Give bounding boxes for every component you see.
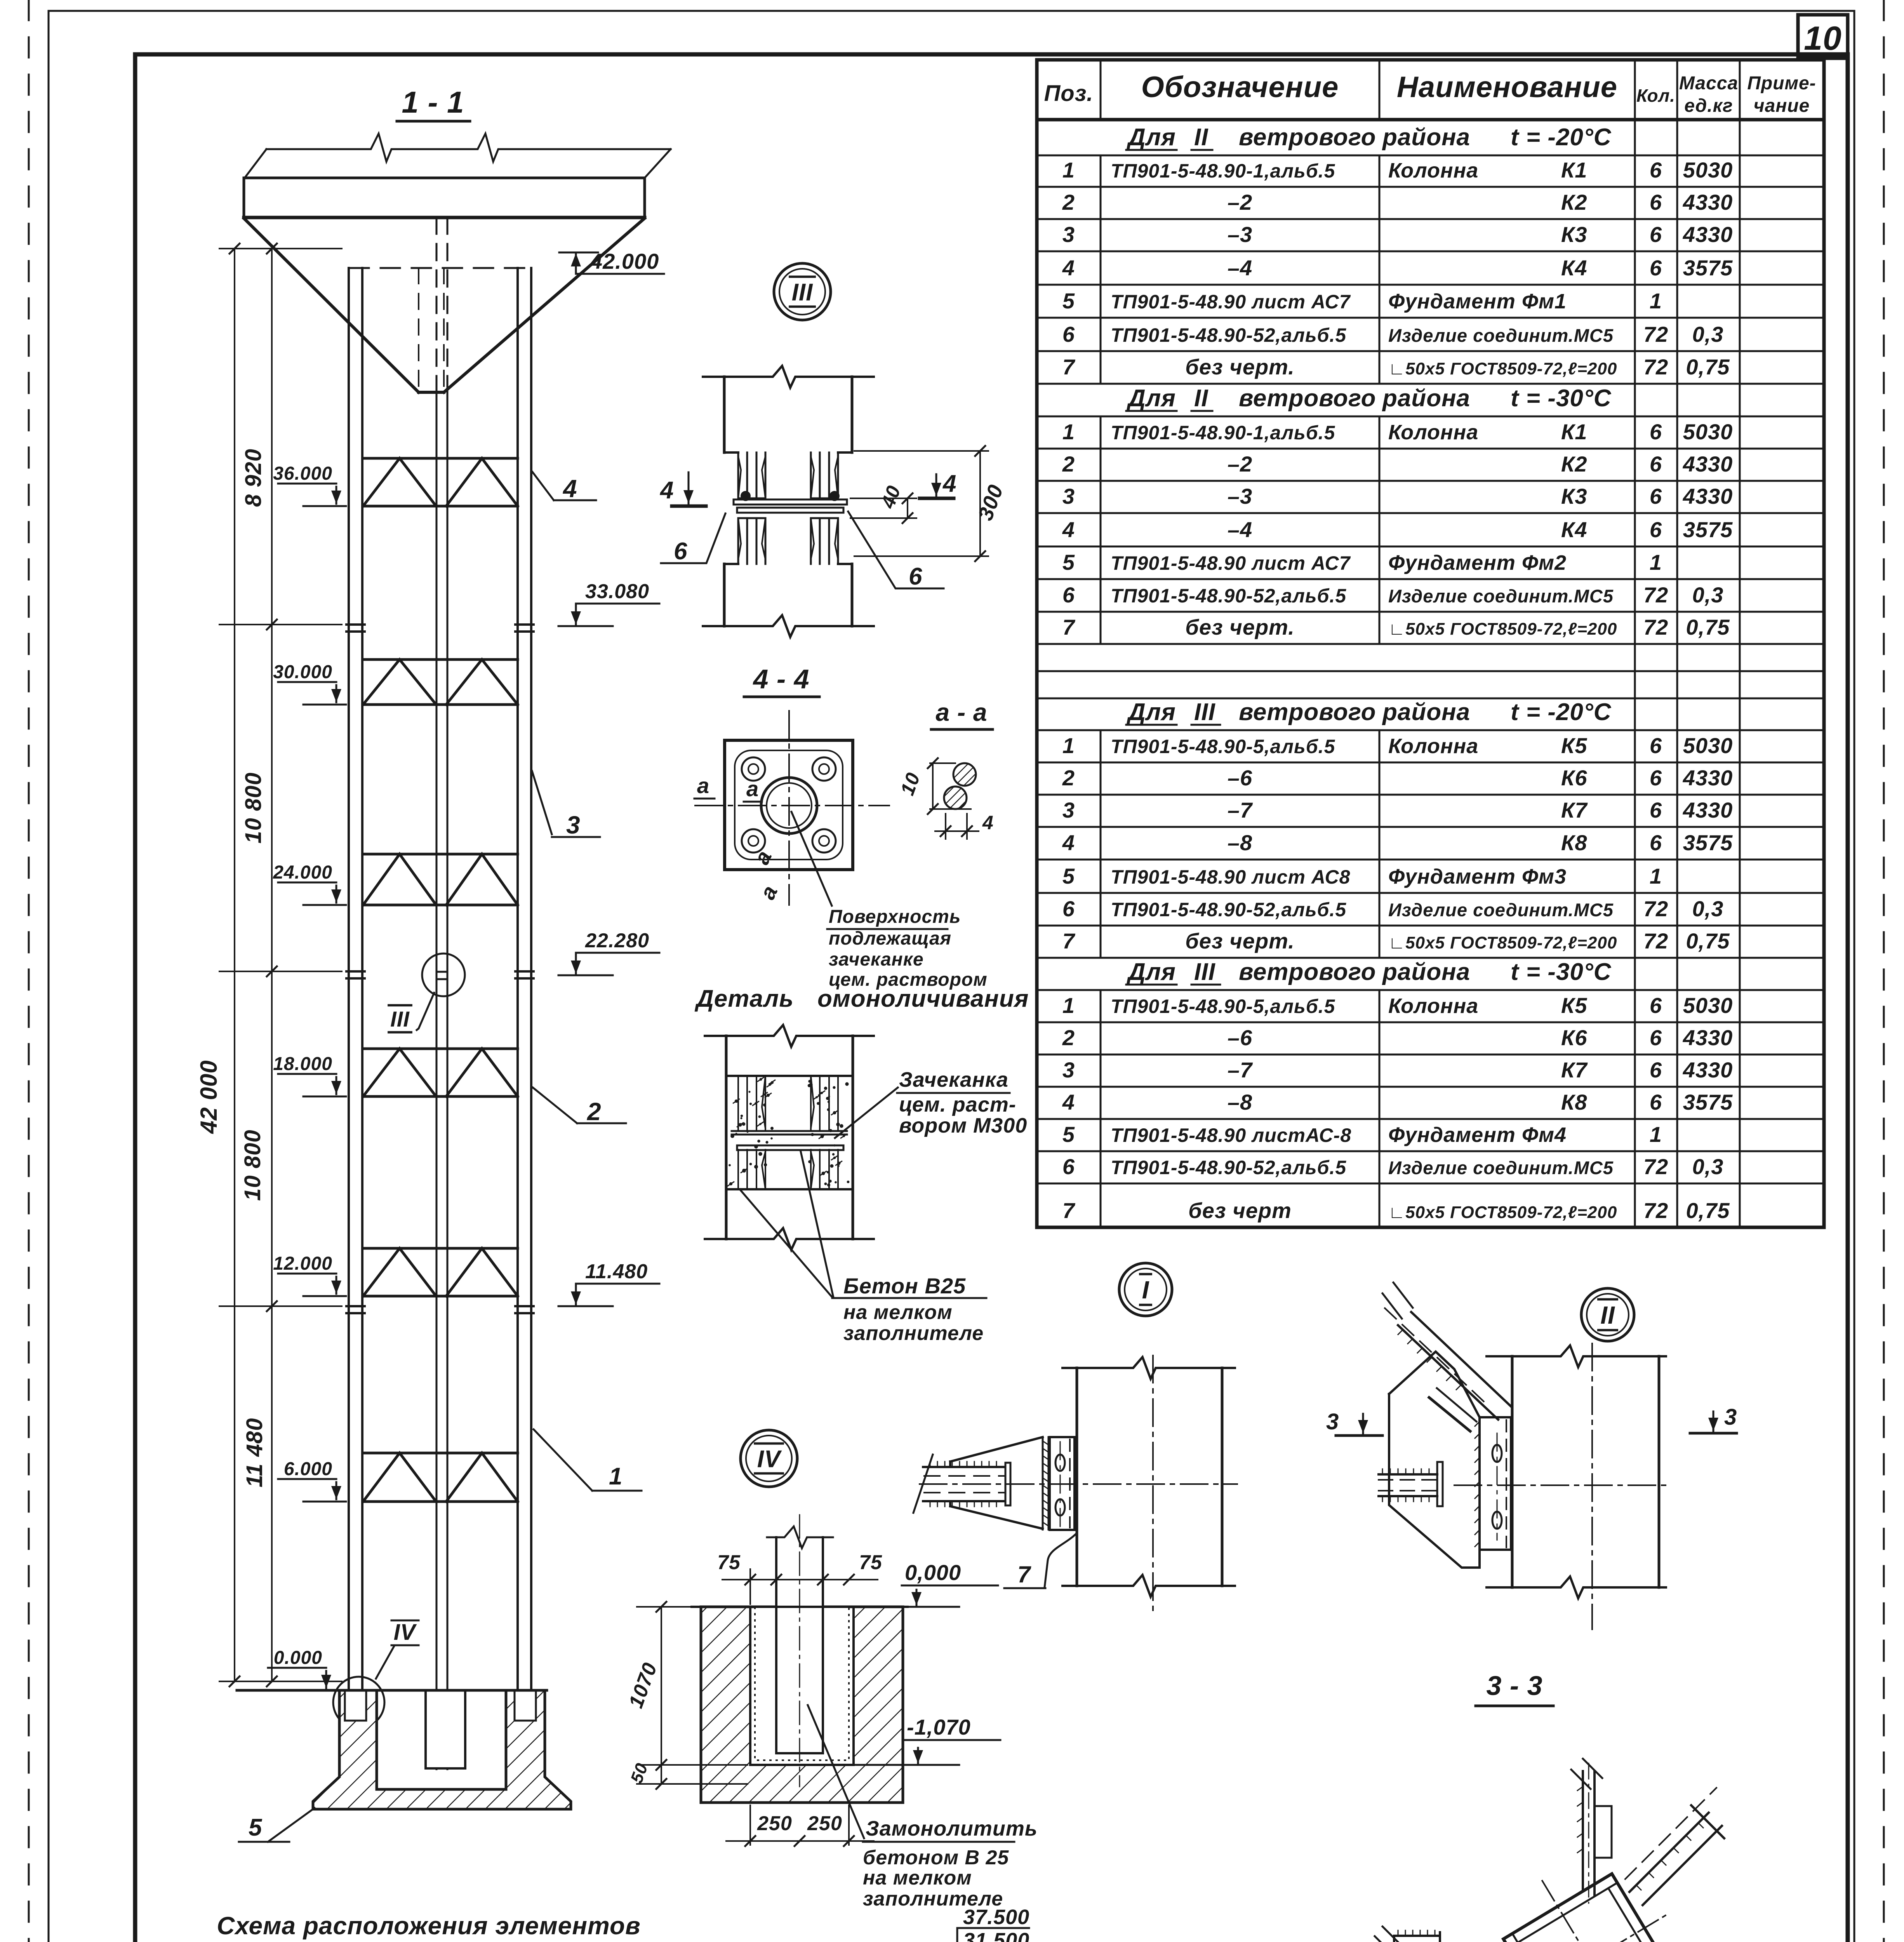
svg-text:1: 1 [609, 1463, 622, 1490]
svg-text:подлежащая: подлежащая [829, 928, 951, 949]
svg-text:района: района [1382, 959, 1470, 985]
svg-text:4: 4 [562, 475, 577, 503]
svg-text:без черт: без черт [1188, 1198, 1292, 1223]
svg-text:1: 1 [1062, 419, 1075, 444]
upper elevation list [956, 1928, 958, 1942]
detail I column [1062, 1357, 1235, 1379]
svg-text:–8: –8 [1228, 1090, 1252, 1114]
hidden line tank bottom 42.000 [350, 267, 531, 269]
svg-text:0,3: 0,3 [1692, 1154, 1724, 1179]
svg-text:К2: К2 [1561, 190, 1588, 214]
svg-text:6: 6 [1062, 896, 1075, 921]
svg-text:0,3: 0,3 [1692, 583, 1724, 607]
leader замонолитить [808, 1705, 864, 1838]
svg-text:Колонна: Колонна [1388, 734, 1478, 758]
detail mark III on shaft [422, 954, 465, 996]
svg-text:Поверхность: Поверхность [829, 907, 961, 927]
specification table [1037, 58, 1824, 62]
svg-text:6: 6 [1650, 419, 1662, 444]
svg-text:ветрового: ветрового [1239, 124, 1376, 151]
svg-text:6: 6 [1062, 322, 1075, 346]
svg-text:75: 75 [717, 1551, 741, 1574]
svg-text:24.000: 24.000 [273, 862, 332, 883]
svg-text:без черт.: без черт. [1185, 355, 1295, 379]
foundation of tower [313, 1690, 571, 1809]
svg-text:Для: Для [1126, 385, 1176, 412]
svg-text:3575: 3575 [1683, 517, 1733, 542]
svg-text:ветрового: ветрового [1239, 385, 1376, 412]
svg-text:7: 7 [1062, 355, 1076, 379]
svg-text:на мелком: на мелком [863, 1867, 972, 1889]
svg-text:4330: 4330 [1683, 452, 1733, 476]
svg-text:t = -20°C: t = -20°C [1511, 124, 1612, 151]
svg-text:4330: 4330 [1683, 1058, 1733, 1082]
svg-text:Поз.: Поз. [1044, 81, 1094, 106]
detail II column [1487, 1345, 1666, 1367]
detail III lower neck flanges [738, 517, 765, 519]
svg-text:чание: чание [1754, 96, 1810, 116]
detail I strut [923, 1466, 1004, 1468]
svg-text:-1,070: -1,070 [907, 1715, 971, 1739]
svg-text:75: 75 [859, 1551, 882, 1574]
svg-text:0,75: 0,75 [1686, 929, 1730, 953]
svg-text:ТП901-5-48.90-52,альб.5: ТП901-5-48.90-52,альб.5 [1111, 899, 1346, 921]
svg-text:Изделие соединит.МС5: Изделие соединит.МС5 [1388, 1157, 1614, 1178]
sheet perforation left edge [28, 0, 30, 1942]
svg-text:6: 6 [1650, 830, 1662, 855]
svg-text:∟50х5 ГОСТ8509-72,ℓ=200: ∟50х5 ГОСТ8509-72,ℓ=200 [1388, 1203, 1617, 1222]
svg-text:Зачеканка: Зачеканка [899, 1068, 1009, 1091]
svg-text:К8: К8 [1561, 1090, 1588, 1114]
svg-text:2: 2 [1062, 452, 1075, 476]
svg-text:омоноличивания: омоноличивания [817, 985, 1029, 1012]
svg-text:6: 6 [1062, 1154, 1075, 1179]
svg-text:К8: К8 [1561, 830, 1588, 855]
svg-text:5: 5 [1062, 1122, 1075, 1147]
svg-text:К4: К4 [1561, 517, 1588, 542]
pit liner [755, 1607, 849, 1760]
svg-text:без черт.: без черт. [1185, 615, 1295, 639]
leader label 4 (column K4) [532, 472, 554, 500]
leader label 1 (column K1) [534, 1429, 592, 1491]
svg-text:72: 72 [1643, 615, 1668, 639]
svg-text:6: 6 [1650, 993, 1662, 1018]
svg-text:–8: –8 [1228, 830, 1252, 855]
svg-text:бетоном В 25: бетоном В 25 [863, 1846, 1009, 1869]
svg-text:36.000: 36.000 [273, 463, 332, 484]
svg-text:6: 6 [1650, 798, 1662, 822]
leader label 2 (column K2) [533, 1088, 577, 1123]
svg-text:Фундамент Фм3: Фундамент Фм3 [1388, 865, 1567, 888]
detail III joint plates [734, 499, 847, 505]
svg-text:72: 72 [1643, 1154, 1668, 1179]
3-3 rotated column section [1462, 1833, 1718, 1942]
svg-text:6: 6 [1650, 484, 1662, 508]
svg-text:Фундамент Фм1: Фундамент Фм1 [1388, 290, 1567, 313]
svg-text:6: 6 [1650, 452, 1662, 476]
4-4 shaft circle [761, 778, 817, 834]
svg-text:II: II [1194, 124, 1208, 151]
svg-text:6: 6 [1650, 517, 1662, 542]
svg-text:вором М300: вором М300 [899, 1114, 1027, 1137]
detail circle I [1119, 1263, 1172, 1316]
svg-text:4 - 4: 4 - 4 [752, 664, 809, 694]
detail III upper column [703, 366, 874, 388]
concrete stipple [767, 1094, 770, 1097]
svg-text:3: 3 [566, 811, 581, 839]
svg-text:12.000: 12.000 [273, 1253, 332, 1274]
svg-text:∟50х5 ГОСТ8509-72,ℓ=200: ∟50х5 ГОСТ8509-72,ℓ=200 [1388, 359, 1617, 378]
section mark 3 right [1713, 1411, 1714, 1431]
svg-text:5030: 5030 [1683, 158, 1733, 182]
detail III upper neck flanges [737, 452, 739, 498]
leader label 6 left [661, 513, 725, 563]
column legs [348, 268, 350, 1721]
4-4 anchor bolts [742, 757, 765, 781]
a-a dim 10 [932, 763, 934, 809]
svg-text:района: района [1382, 124, 1470, 151]
svg-text:4330: 4330 [1683, 798, 1733, 822]
svg-text:18.000: 18.000 [273, 1054, 332, 1074]
svg-text:1: 1 [1062, 158, 1075, 182]
svg-text:К1: К1 [1561, 158, 1588, 182]
svg-text:5: 5 [1062, 864, 1075, 888]
svg-text:31.500: 31.500 [963, 1929, 1029, 1942]
svg-text:3: 3 [1062, 484, 1075, 508]
svg-text:–6: –6 [1228, 1025, 1252, 1050]
svg-text:10 800: 10 800 [240, 1129, 265, 1201]
svg-text:4: 4 [1062, 1090, 1075, 1114]
svg-text:6: 6 [1650, 190, 1662, 214]
detail circle IV [741, 1430, 797, 1487]
svg-text:а - а: а - а [935, 698, 987, 726]
pit hatching [701, 1607, 903, 1803]
svg-text:42 000: 42 000 [196, 1060, 222, 1134]
svg-text:72: 72 [1643, 322, 1668, 346]
svg-text:Масса: Масса [1679, 73, 1738, 94]
svg-text:2: 2 [587, 1098, 602, 1126]
svg-text:–7: –7 [1228, 1058, 1253, 1082]
svg-text:4: 4 [942, 470, 956, 497]
svg-text:0,3: 0,3 [1692, 322, 1724, 346]
svg-text:К2: К2 [1561, 452, 1588, 476]
tank cone [244, 218, 419, 392]
svg-text:Замонолитить: Замонолитить [866, 1817, 1038, 1840]
svg-text:6: 6 [1062, 583, 1075, 607]
svg-text:ед.кг: ед.кг [1684, 96, 1733, 116]
svg-text:К7: К7 [1561, 1058, 1588, 1082]
3-3 vertical strut [1582, 1771, 1584, 1891]
pit surface line [692, 1606, 908, 1608]
svg-text:1 - 1: 1 - 1 [402, 85, 464, 119]
svg-text:4: 4 [1062, 517, 1075, 542]
leader зачеканка [835, 1088, 898, 1138]
svg-text:без черт.: без черт. [1185, 929, 1295, 953]
svg-text:2: 2 [1062, 1025, 1075, 1050]
svg-text:72: 72 [1643, 1198, 1668, 1223]
svg-text:ТП901-5-48.90-1,альб.5: ТП901-5-48.90-1,альб.5 [1111, 160, 1335, 182]
detail III section mark 4 right [935, 474, 937, 496]
svg-text:t = -30°C: t = -30°C [1511, 385, 1612, 412]
svg-text:4: 4 [982, 812, 994, 834]
svg-text:К1: К1 [1561, 419, 1588, 444]
svg-text:1: 1 [1062, 993, 1075, 1018]
joint plates [732, 1130, 847, 1132]
svg-text:5: 5 [249, 1814, 263, 1841]
detail II horizontal strut [1379, 1473, 1437, 1476]
svg-text:района: района [1382, 385, 1470, 412]
svg-text:6: 6 [1650, 733, 1662, 758]
leader label 3 (column K3) [532, 771, 552, 834]
svg-text:30.000: 30.000 [273, 662, 332, 682]
svg-text:I: I [1142, 1276, 1149, 1304]
svg-text:6: 6 [909, 563, 922, 590]
3-3 west strut anchor [1394, 1936, 1440, 1942]
monolithic joint column [705, 1025, 874, 1047]
svg-text:IV: IV [394, 1620, 417, 1645]
svg-text:Бетон В25: Бетон В25 [843, 1274, 966, 1298]
dim 75 75 [749, 1569, 751, 1604]
svg-text:0,3: 0,3 [1692, 896, 1724, 921]
svg-text:72: 72 [1643, 355, 1668, 379]
svg-text:К3: К3 [1561, 222, 1588, 247]
svg-text:6.000: 6.000 [284, 1459, 332, 1479]
detail I console [950, 1437, 1043, 1462]
svg-text:–4: –4 [1228, 517, 1252, 542]
svg-text:5: 5 [1062, 289, 1075, 313]
svg-text:III: III [1194, 699, 1215, 726]
svg-text:Фундамент Фм4: Фундамент Фм4 [1388, 1123, 1567, 1147]
svg-text:0,75: 0,75 [1686, 1198, 1730, 1223]
svg-text:250: 250 [807, 1812, 842, 1835]
svg-text:–2: –2 [1228, 452, 1252, 476]
svg-text:250: 250 [757, 1812, 792, 1835]
svg-text:33.080: 33.080 [585, 580, 649, 603]
svg-text:III: III [390, 1007, 410, 1031]
svg-text:3: 3 [1326, 1409, 1339, 1434]
svg-text:II: II [1194, 385, 1208, 412]
svg-text:Деталь: Деталь [694, 985, 794, 1012]
svg-text:∟50х5 ГОСТ8509-72,ℓ=200: ∟50х5 ГОСТ8509-72,ℓ=200 [1388, 619, 1617, 639]
svg-text:4330: 4330 [1683, 484, 1733, 508]
svg-text:3: 3 [1062, 1058, 1075, 1082]
4-4 centerlines [695, 805, 889, 806]
svg-text:ТП901-5-48.90-5,альб.5: ТП901-5-48.90-5,альб.5 [1111, 995, 1335, 1017]
svg-text:а: а [697, 773, 709, 798]
svg-text:Изделие соединит.МС5: Изделие соединит.МС5 [1388, 900, 1614, 920]
detail I face plate [1050, 1437, 1075, 1530]
svg-text:Колонна: Колонна [1388, 994, 1478, 1018]
svg-text:10: 10 [1804, 20, 1842, 57]
svg-text:10 800: 10 800 [241, 772, 266, 843]
svg-text:11.480: 11.480 [585, 1260, 648, 1283]
svg-text:4: 4 [1062, 830, 1075, 855]
sheet number box [1798, 15, 1848, 58]
svg-text:Приме-: Приме- [1747, 73, 1816, 94]
a-a bars [953, 763, 976, 786]
svg-text:цем. раст-: цем. раст- [899, 1093, 1016, 1116]
leader to surface note [791, 812, 832, 906]
svg-text:III: III [1194, 959, 1215, 985]
svg-text:К5: К5 [1561, 733, 1588, 758]
svg-text:К5: К5 [1561, 993, 1588, 1018]
svg-text:6: 6 [1650, 158, 1662, 182]
svg-text:ТП901-5-48.90-52,альб.5: ТП901-5-48.90-52,альб.5 [1111, 1157, 1346, 1178]
neck flanges in jacket [737, 1076, 739, 1131]
svg-text:3575: 3575 [1683, 830, 1733, 855]
svg-text:3: 3 [1062, 222, 1075, 247]
svg-text:6: 6 [1650, 766, 1662, 790]
svg-text:III: III [792, 279, 813, 306]
svg-text:22.280: 22.280 [585, 929, 649, 952]
svg-text:Наименование: Наименование [1397, 71, 1617, 104]
svg-text:–7: –7 [1228, 798, 1253, 822]
leader label 7 [1045, 1534, 1076, 1587]
svg-text:6: 6 [1650, 222, 1662, 247]
detail III dim 300 [854, 450, 988, 452]
leader label 5 (foundation) [268, 1808, 315, 1842]
svg-text:Для: Для [1126, 124, 1176, 151]
dimension chain lines [234, 249, 235, 1681]
svg-text:8 920: 8 920 [241, 449, 266, 507]
detail II diagonal strut [1398, 1325, 1498, 1420]
column joints [346, 623, 365, 626]
svg-text:5: 5 [1062, 550, 1075, 574]
3-3 ne strut [1629, 1813, 1709, 1892]
svg-text:11 480: 11 480 [242, 1418, 267, 1487]
svg-text:на мелком: на мелком [843, 1301, 953, 1324]
svg-text:72: 72 [1643, 896, 1668, 921]
svg-text:башни: башни [404, 1940, 487, 1942]
svg-text:зачеканке: зачеканке [829, 949, 924, 970]
svg-text:6: 6 [1650, 1058, 1662, 1082]
svg-text:Колонна: Колонна [1388, 421, 1478, 444]
svg-text:ТП901-5-48.90 лист АС7: ТП901-5-48.90 лист АС7 [1111, 552, 1351, 574]
svg-text:К7: К7 [1561, 798, 1588, 822]
pit outline [701, 1607, 903, 1803]
svg-text:ТП901-5-48.90 листАС-8: ТП901-5-48.90 листАС-8 [1111, 1124, 1351, 1146]
svg-text:4330: 4330 [1683, 222, 1733, 247]
svg-text:2: 2 [1062, 190, 1075, 214]
svg-text:t = -30°C: t = -30°C [1511, 959, 1612, 985]
svg-text:3: 3 [1724, 1404, 1737, 1430]
svg-text:7: 7 [1062, 615, 1076, 639]
svg-text:1: 1 [1062, 733, 1075, 758]
leader бетон B25 [740, 1189, 832, 1297]
svg-text:3: 3 [1062, 798, 1075, 822]
svg-text:Для: Для [1126, 699, 1176, 726]
svg-text:К6: К6 [1561, 1025, 1588, 1050]
svg-text:5030: 5030 [1683, 419, 1733, 444]
svg-text:Колонна: Колонна [1388, 159, 1478, 182]
a-a dim 4 [945, 814, 946, 839]
svg-text:6: 6 [674, 538, 687, 565]
svg-text:4: 4 [659, 477, 674, 504]
svg-text:2: 2 [1062, 766, 1075, 790]
svg-text:0.000: 0.000 [274, 1648, 322, 1668]
svg-text:ТП901-5-48.90-52,альб.5: ТП901-5-48.90-52,альб.5 [1111, 324, 1346, 346]
detail II gusset [1389, 1352, 1480, 1417]
svg-text:Кол.: Кол. [1636, 85, 1675, 106]
svg-text:1: 1 [1650, 289, 1662, 313]
svg-text:∟50х5 ГОСТ8509-72,ℓ=200: ∟50х5 ГОСТ8509-72,ℓ=200 [1388, 933, 1617, 952]
svg-text:4330: 4330 [1683, 766, 1733, 790]
detail circle III [774, 263, 831, 320]
svg-text:72: 72 [1643, 583, 1668, 607]
svg-text:72: 72 [1643, 929, 1668, 953]
svg-text:6: 6 [1650, 1025, 1662, 1050]
svg-text:ТП901-5-48.90-5,альб.5: ТП901-5-48.90-5,альб.5 [1111, 736, 1335, 757]
svg-text:ветрового: ветрового [1239, 699, 1376, 726]
column stub in pit [776, 1537, 823, 1753]
svg-text:4330: 4330 [1683, 1025, 1733, 1050]
svg-text:Схема расположения элементов: Схема расположения элементов [217, 1912, 640, 1940]
water tank [266, 134, 671, 162]
svg-text:района: района [1382, 699, 1470, 726]
svg-text:ТП901-5-48.90 лист АС8: ТП901-5-48.90 лист АС8 [1111, 866, 1350, 888]
detail I weld strip [1043, 1437, 1049, 1530]
svg-text:–2: –2 [1228, 190, 1252, 214]
svg-text:II: II [1600, 1301, 1615, 1329]
svg-text:К3: К3 [1561, 484, 1588, 508]
svg-text:Изделие соединит.МС5: Изделие соединит.МС5 [1388, 586, 1614, 606]
svg-text:–4: –4 [1228, 256, 1252, 280]
svg-text:IV: IV [757, 1446, 782, 1472]
svg-text:ТП901-5-48.90-1,альб.5: ТП901-5-48.90-1,альб.5 [1111, 422, 1335, 444]
svg-text:4: 4 [1062, 256, 1075, 280]
svg-text:7: 7 [1017, 1561, 1031, 1587]
svg-text:1: 1 [1650, 1122, 1662, 1147]
svg-text:ТП901-5-48.90 лист АС7: ТП901-5-48.90 лист АС7 [1111, 291, 1351, 313]
svg-text:t = -20°C: t = -20°C [1511, 699, 1612, 726]
svg-text:ветрового: ветрового [1239, 959, 1376, 985]
svg-text:0,75: 0,75 [1686, 615, 1730, 639]
detail III dim 40 [850, 498, 916, 499]
leader label 6 right [848, 512, 944, 588]
svg-text:заполнителе: заполнителе [843, 1322, 984, 1345]
jacket top/bottom [726, 1075, 853, 1077]
svg-text:3 - 3: 3 - 3 [1486, 1671, 1542, 1701]
svg-text:4330: 4330 [1683, 190, 1733, 214]
svg-text:0,000: 0,000 [905, 1560, 961, 1585]
svg-text:Для: Для [1126, 959, 1176, 985]
svg-text:3575: 3575 [1683, 1090, 1733, 1114]
svg-text:1: 1 [1650, 550, 1662, 574]
svg-text:6: 6 [1650, 256, 1662, 280]
svg-text:–3: –3 [1228, 222, 1252, 247]
svg-text:6: 6 [1650, 1090, 1662, 1114]
detail circle II [1581, 1288, 1634, 1341]
svg-text:42.000: 42.000 [590, 249, 659, 273]
svg-text:1: 1 [1650, 864, 1662, 888]
svg-text:а: а [746, 776, 759, 801]
detail II face plate [1480, 1417, 1511, 1550]
bracing panels [363, 457, 518, 460]
svg-text:Изделие соединит.МС5: Изделие соединит.МС5 [1388, 325, 1614, 346]
central shaft [436, 218, 438, 392]
svg-text:0,75: 0,75 [1686, 355, 1730, 379]
svg-text:Фундамент Фм2: Фундамент Фм2 [1388, 551, 1567, 574]
svg-text:5030: 5030 [1683, 733, 1733, 758]
svg-text:37.500: 37.500 [963, 1905, 1029, 1929]
svg-text:К4: К4 [1561, 256, 1588, 280]
svg-text:Обозначение: Обозначение [1141, 71, 1339, 104]
svg-text:–6: –6 [1228, 766, 1252, 790]
dim 250 250 [749, 1805, 751, 1845]
svg-text:ТП901-5-48.90-52,альб.5: ТП901-5-48.90-52,альб.5 [1111, 585, 1346, 607]
svg-text:5030: 5030 [1683, 993, 1733, 1018]
4-4 base plate [725, 740, 853, 870]
